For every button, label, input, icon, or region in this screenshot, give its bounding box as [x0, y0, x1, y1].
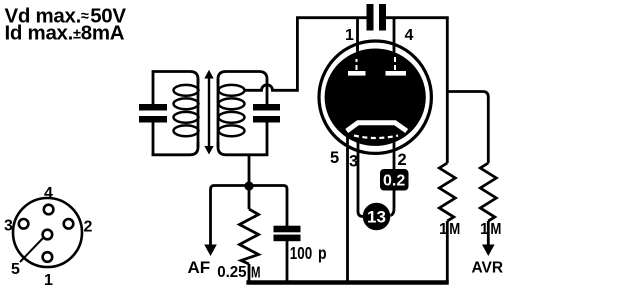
inductor L2 loop 1: [219, 85, 245, 96]
AF arrow head: [204, 245, 217, 257]
inductor L2 loop 3: [219, 112, 245, 123]
wire pin 5: [346, 137, 349, 282]
svg-text:0.2: 0.2: [383, 173, 405, 190]
capacitor C1 left tank plates: [139, 104, 167, 111]
wire pin 2: [391, 142, 395, 216]
svg-text:4: 4: [44, 185, 53, 202]
inductor L1 loop 2: [174, 98, 199, 109]
svg-text:2: 2: [84, 219, 93, 236]
svg-text:0.25: 0.25: [217, 264, 246, 281]
tube V1 anode plate right: [386, 71, 407, 76]
svg-text:AVR: AVR: [472, 260, 504, 277]
svg-text:M: M: [449, 221, 460, 238]
tube socket base outline: [13, 198, 82, 267]
inductor L1 winding wire: [197, 79, 200, 147]
socket pin 2 hole: [64, 219, 74, 229]
inductor L2 winding wire: [217, 79, 220, 147]
svg-text:100: 100: [290, 243, 313, 263]
wire C4 bottom: [286, 241, 289, 283]
wire left tank top: [152, 72, 198, 85]
svg-text:AF: AF: [188, 258, 211, 277]
measurement circle 13: [363, 203, 391, 231]
resistor R2 1M: [439, 163, 455, 221]
measurement box 0.2: [380, 169, 409, 191]
svg-text:p: p: [318, 243, 327, 263]
socket pin 5 hole (center): [43, 230, 53, 240]
wire pin 4 drop: [393, 18, 396, 49]
junction node: [244, 181, 253, 190]
inductor L2 loop 2: [219, 98, 245, 109]
inductor L1 loop 4: [174, 125, 199, 136]
inductor L2 loop 4: [219, 125, 245, 136]
svg-text:Id max.±8mA: Id max.±8mA: [5, 22, 125, 45]
wire right tank top: [218, 72, 267, 105]
tube V1 anode lead dashes right: [394, 54, 396, 70]
wire C1 leads: [152, 72, 155, 157]
wire right tank bottom: [218, 123, 268, 155]
wire pin 4 through ring: [393, 43, 396, 55]
wire R3 to arrow: [487, 221, 490, 246]
svg-text:M: M: [251, 265, 261, 282]
tube V1 anode lead dashes left: [356, 59, 358, 70]
bottom rail: [246, 280, 448, 284]
wire junction to R1: [248, 186, 251, 209]
tube V1 filament: [347, 123, 407, 131]
inductor L1 loop 3: [174, 112, 199, 123]
core tuning arrow: [208, 75, 210, 149]
wire junction to C4: [249, 186, 287, 227]
AVR arrow head: [482, 245, 495, 257]
resistor R3 1M: [480, 163, 496, 221]
socket pin 5 pointer line: [20, 238, 44, 263]
svg-text:1: 1: [480, 221, 489, 238]
resistor R1 0.25M: [240, 209, 259, 264]
capacitor C4 plates: [274, 226, 301, 233]
inductor L1 loop 1: [174, 85, 199, 96]
svg-text:1: 1: [439, 221, 448, 238]
wire tap from L2 to diode with crossover hop: [245, 18, 298, 91]
tube V1 anode plate left: [348, 71, 366, 76]
wire pin 3: [358, 142, 365, 217]
svg-text:M: M: [490, 221, 501, 238]
wire left tank bottom: [152, 142, 198, 155]
socket pin 4 hole: [44, 205, 54, 215]
svg-text:5: 5: [11, 261, 20, 278]
svg-text:1: 1: [345, 27, 354, 44]
svg-text:13: 13: [367, 208, 386, 227]
socket pin 3 hole: [19, 219, 29, 229]
svg-text:1: 1: [44, 272, 53, 289]
capacitor C2 right tank plates: [253, 104, 280, 111]
svg-text:3: 3: [4, 218, 13, 235]
wire R1 bottom: [248, 264, 251, 283]
svg-text:4: 4: [405, 27, 414, 44]
wire branch to R3: [447, 92, 488, 164]
wire pin 1 through ring: [356, 44, 359, 56]
wire pin 1 drop: [356, 18, 359, 50]
socket pin 1 hole: [43, 252, 53, 262]
wire top horizontal right of C3: [386, 16, 449, 19]
wire AF branch: [211, 186, 250, 247]
tube V1 cathode arc: [354, 136, 398, 139]
wire R2 bottom to rail: [446, 221, 449, 283]
wire tank bottom to junction: [248, 154, 251, 186]
svg-text:2: 2: [398, 151, 407, 169]
svg-text:5: 5: [330, 149, 339, 167]
capacitor C3 plates: [367, 4, 374, 31]
tube V1 envelope: [319, 41, 431, 153]
wire top horizontal left of C3: [296, 16, 367, 19]
wire right side vertical: [446, 17, 449, 163]
